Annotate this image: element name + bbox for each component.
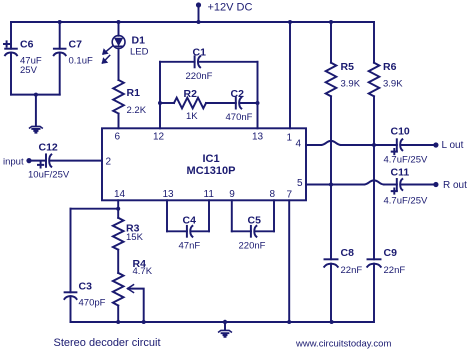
svg-text:D1: D1 bbox=[132, 35, 146, 47]
svg-text:11: 11 bbox=[204, 189, 215, 200]
capacitor C2 bbox=[235, 98, 237, 109]
svg-text:10uF/25V: 10uF/25V bbox=[28, 170, 70, 181]
capacitor C11 bbox=[396, 179, 398, 190]
resistor R3 bbox=[117, 209, 119, 218]
wire top +12V rail bbox=[11, 21, 374, 23]
node +12V terminal bbox=[198, 5, 200, 22]
svg-text:IC1: IC1 bbox=[202, 153, 219, 165]
svg-text:C2: C2 bbox=[231, 88, 245, 100]
svg-text:4.7uF/25V: 4.7uF/25V bbox=[384, 196, 428, 207]
resistor R5 bbox=[330, 22, 332, 63]
svg-text:C8: C8 bbox=[341, 247, 355, 259]
svg-text:R out: R out bbox=[443, 180, 467, 191]
svg-text:22nF: 22nF bbox=[341, 265, 363, 276]
op-amp U1 IC1 MC1310P body bbox=[102, 128, 306, 200]
wire pin4 row (L out) bbox=[306, 144, 321, 146]
wire pin14 junction bbox=[117, 200, 119, 208]
svg-text:470pF: 470pF bbox=[79, 297, 106, 308]
capacitor C1 bbox=[160, 61, 195, 63]
svg-text:220nF: 220nF bbox=[239, 241, 266, 252]
svg-text:0.1uF: 0.1uF bbox=[69, 56, 93, 67]
wire R5 to C8 bbox=[330, 96, 332, 259]
capacitor C12 bbox=[45, 154, 47, 166]
svg-text:C5: C5 bbox=[248, 215, 262, 227]
svg-text:3.9K: 3.9K bbox=[383, 79, 403, 90]
svg-text:C4: C4 bbox=[183, 215, 197, 227]
svg-text:C9: C9 bbox=[384, 247, 398, 259]
svg-text:7: 7 bbox=[287, 189, 293, 200]
svg-text:C11: C11 bbox=[391, 167, 410, 179]
ground (below C6/C7) bbox=[35, 95, 37, 126]
svg-text:+12V DC: +12V DC bbox=[208, 2, 253, 14]
svg-text:13: 13 bbox=[252, 132, 264, 143]
svg-text:L out: L out bbox=[442, 140, 464, 151]
node input terminal bbox=[26, 158, 31, 163]
svg-text:1K: 1K bbox=[186, 111, 198, 122]
svg-text:C10: C10 bbox=[391, 126, 410, 138]
svg-text:1: 1 bbox=[287, 133, 293, 144]
resistor R4 (preset) bbox=[117, 250, 119, 273]
svg-text:www.circuitstoday.com: www.circuitstoday.com bbox=[295, 338, 391, 349]
wire pin5 row (R out) bbox=[306, 184, 364, 186]
svg-text:4: 4 bbox=[296, 139, 302, 150]
capacitor C9 bbox=[368, 258, 381, 260]
svg-text:14: 14 bbox=[114, 189, 126, 200]
resistor R2 bbox=[160, 102, 174, 104]
svg-text:4.7K: 4.7K bbox=[133, 266, 153, 277]
svg-text:R5: R5 bbox=[341, 61, 355, 73]
wire C6-C7 bottom bbox=[11, 94, 60, 96]
capacitor C8 bbox=[325, 258, 338, 260]
resistor R6 bbox=[373, 22, 375, 63]
svg-text:22nF: 22nF bbox=[384, 265, 406, 276]
svg-text:220nF: 220nF bbox=[186, 71, 213, 82]
svg-text:input: input bbox=[3, 156, 24, 167]
svg-text:R1: R1 bbox=[127, 87, 141, 99]
wire bottom rail bbox=[71, 321, 374, 323]
svg-text:47nF: 47nF bbox=[179, 241, 201, 252]
svg-text:470nF: 470nF bbox=[226, 112, 253, 123]
resistor R1 bbox=[113, 80, 124, 114]
svg-text:C7: C7 bbox=[69, 39, 83, 51]
svg-text:4.7uF/25V: 4.7uF/25V bbox=[384, 155, 428, 166]
wire R4 wiper arm bbox=[128, 289, 144, 322]
wire R6 to C9 bbox=[373, 96, 375, 259]
svg-text:C3: C3 bbox=[79, 281, 93, 293]
capacitor C6 bbox=[10, 22, 12, 49]
svg-text:C12: C12 bbox=[39, 142, 58, 154]
svg-text:3.9K: 3.9K bbox=[341, 79, 361, 90]
svg-text:MC1310P: MC1310P bbox=[187, 165, 236, 177]
svg-text:R6: R6 bbox=[383, 61, 397, 73]
svg-text:9: 9 bbox=[229, 189, 235, 200]
capacitor C7 bbox=[59, 22, 61, 49]
svg-text:C1: C1 bbox=[193, 46, 207, 58]
svg-text:5: 5 bbox=[297, 178, 303, 189]
wire loop right (pin 13) bbox=[257, 62, 259, 129]
ground (bottom rail) bbox=[223, 320, 227, 324]
svg-text:13: 13 bbox=[163, 189, 175, 200]
svg-text:R2: R2 bbox=[184, 88, 198, 100]
svg-text:8: 8 bbox=[270, 189, 276, 200]
wire pin7 to ground rail bbox=[288, 200, 290, 322]
svg-text:12: 12 bbox=[153, 132, 165, 143]
svg-text:2: 2 bbox=[106, 157, 112, 168]
svg-text:6: 6 bbox=[115, 132, 121, 143]
svg-text:25V: 25V bbox=[20, 65, 38, 76]
capacitor C4 loop bbox=[166, 200, 168, 231]
LED D1 bbox=[118, 22, 120, 36]
capacitor C3 bbox=[70, 209, 72, 293]
svg-text:2.2K: 2.2K bbox=[127, 105, 147, 116]
capacitor C5 loop bbox=[231, 200, 233, 231]
svg-text:C6: C6 bbox=[20, 39, 34, 51]
svg-text:Stereo decoder circuit: Stereo decoder circuit bbox=[54, 337, 161, 349]
svg-text:LED: LED bbox=[130, 46, 149, 57]
node pin1 stub to rail bbox=[289, 22, 291, 128]
svg-text:15K: 15K bbox=[126, 232, 144, 243]
capacitor C10 bbox=[396, 139, 398, 150]
wire loop left (pin 12) bbox=[159, 62, 161, 129]
